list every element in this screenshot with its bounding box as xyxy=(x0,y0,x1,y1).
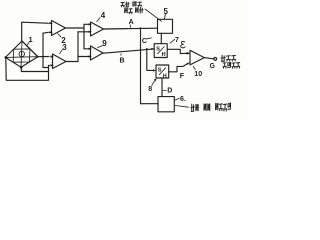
op-amp 4 xyxy=(91,22,104,36)
junction dots on bridge corners xyxy=(4,56,38,69)
wire: branch column x78 xyxy=(77,32,79,62)
wire: op-amp3 output to branch column xyxy=(66,61,78,63)
leader to bottom caption xyxy=(174,105,188,107)
photodetector bridge 1 (diamond) xyxy=(5,41,37,67)
svg-text:4: 4 xyxy=(101,11,106,20)
label 10 leader xyxy=(193,66,195,69)
korean caption top-left (drawn squiggles) xyxy=(121,2,143,14)
label 4 leader xyxy=(97,18,100,22)
svg-text:H: H xyxy=(163,73,167,79)
wire F: S/H8 output to op-amp10 - input xyxy=(169,64,188,72)
wire: riser down to op-amp3 lower input xyxy=(43,57,50,68)
wire: branch into generator 6 xyxy=(141,103,159,105)
wire: branch into S/H 8 xyxy=(147,49,154,71)
svg-text:D: D xyxy=(167,87,172,94)
svg-text:S: S xyxy=(158,68,162,74)
svg-text:B: B xyxy=(120,58,125,65)
label 3 leader xyxy=(60,50,63,54)
label D dash xyxy=(163,89,166,91)
output wire G xyxy=(204,58,213,59)
label 1 xyxy=(27,42,30,47)
op-amp 10 xyxy=(190,50,204,65)
svg-text:3: 3 xyxy=(62,43,67,52)
box 6 (sample pulse generator) xyxy=(158,97,174,112)
output terminal circle xyxy=(214,58,217,61)
wire: bridge right corner to op-amp3 top input xyxy=(38,56,49,58)
svg-text:C: C xyxy=(142,38,147,45)
label E script xyxy=(181,41,186,47)
S/H box 8 xyxy=(156,65,169,78)
wire: into op-amp9 - input xyxy=(78,56,88,58)
wire: into op-amp9 + input xyxy=(84,48,88,50)
svg-text:8: 8 xyxy=(148,86,152,93)
box 5 (pulse generator) xyxy=(158,19,173,33)
svg-text:H: H xyxy=(162,52,166,58)
svg-text:5: 5 xyxy=(164,7,169,16)
junction dot A-branch xyxy=(140,27,142,29)
label 8 leader arrow xyxy=(152,80,155,85)
label 9 leader xyxy=(98,45,104,47)
svg-text:6.: 6. xyxy=(180,96,186,103)
korean caption bottom-right (drawn squiggles) xyxy=(191,103,231,112)
wire C: box5 to S/H 7 clock xyxy=(160,33,162,43)
wire: into op-amp4 - input xyxy=(78,31,88,33)
label 6 leader xyxy=(174,98,179,100)
svg-text:10: 10 xyxy=(194,71,202,78)
wire: riser to op-amp2 lower input xyxy=(43,32,48,56)
op-amp 3 xyxy=(53,54,67,69)
label C dash xyxy=(147,37,152,40)
wire: loop from left corner around bottom xyxy=(6,58,49,81)
korean caption right of output (drawn squiggles) xyxy=(221,55,240,68)
wire A: op-amp4 output to box 5 xyxy=(104,27,158,30)
S/H box 7 xyxy=(154,44,167,58)
wire E: S/H7 output to op-amp10 + input xyxy=(167,49,188,53)
svg-text:S: S xyxy=(156,46,160,52)
bridge center lamp circle xyxy=(19,51,24,56)
svg-text:9: 9 xyxy=(102,39,107,48)
label 7 leader xyxy=(170,39,175,43)
label 5 leader xyxy=(164,14,165,19)
label A arrow xyxy=(129,25,131,28)
wire: into op-amp4 + input xyxy=(84,23,88,25)
bridge interior cross xyxy=(5,41,37,67)
label B arrow xyxy=(120,54,122,56)
svg-text:F: F xyxy=(180,73,185,80)
svg-text:7: 7 xyxy=(175,37,179,44)
long branch wire from A down to S/H8 and generator 6 xyxy=(140,28,142,104)
svg-text:A: A xyxy=(129,19,134,26)
leader from korean caption to box5 xyxy=(145,9,162,21)
op-amp 9 xyxy=(91,46,104,60)
wire: bottom corner short loop xyxy=(21,67,48,71)
wire D: S/H8 bottom to generator 6 xyxy=(161,78,163,97)
wire: branch column x84 xyxy=(83,24,85,49)
wire: op-amp2 output to branch column xyxy=(66,27,85,29)
wire: bridge top to op-amp2 + input xyxy=(22,22,48,41)
junction dot riser node xyxy=(42,56,44,58)
op-amp 2 xyxy=(48,21,66,36)
text labels xyxy=(29,7,216,103)
junction dot B-branch xyxy=(146,48,148,50)
svg-text:G: G xyxy=(210,63,216,70)
wire B: op-amp9 output to S/H 7 xyxy=(103,49,154,53)
svg-text:1: 1 xyxy=(29,35,33,44)
label 2 leader xyxy=(58,34,61,37)
